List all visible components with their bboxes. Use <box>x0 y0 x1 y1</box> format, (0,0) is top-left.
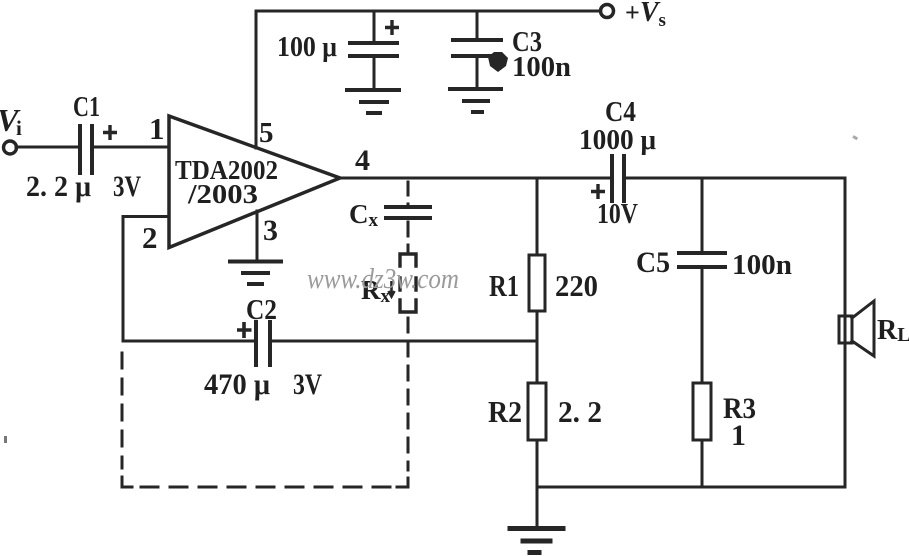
svg-text:100n: 100n <box>512 51 571 83</box>
wire pin3 vertical <box>256 211 259 262</box>
svg-text:3: 3 <box>263 214 278 247</box>
wire C5 to R3 <box>701 267 704 383</box>
capacitor 100u stem bottom <box>373 56 376 90</box>
wire output pin4 <box>340 177 612 180</box>
wire dashed left vertical <box>121 353 124 468</box>
wire pin2 vertical <box>122 217 125 342</box>
label + 100u <box>385 20 399 35</box>
wire dashed lead Cx <box>407 182 410 207</box>
wire C5 branch top <box>701 178 704 253</box>
wire bottom rail <box>537 486 845 489</box>
svg-text:C5: C5 <box>636 246 670 279</box>
svg-text:/2003: /2003 <box>187 179 258 209</box>
svg-text:100n: 100n <box>732 249 792 281</box>
speck artifact top right <box>852 135 858 140</box>
label + C4 <box>591 184 605 199</box>
input terminal Vi <box>4 141 17 154</box>
capacitor 100u plates <box>350 41 397 45</box>
wire dashed Rx down <box>407 318 410 470</box>
wire pin2 horizontal <box>123 215 169 218</box>
terminal +Vs <box>601 5 614 18</box>
wire speaker bottom <box>844 343 847 487</box>
resistor Rx dashed <box>400 254 416 312</box>
capacitor Cx plates <box>386 205 430 209</box>
capacitor C3 stem top <box>476 11 479 40</box>
capacitor C1 plates <box>78 126 82 173</box>
wire input left <box>16 146 80 149</box>
ground main <box>536 487 539 528</box>
svg-text:220: 220 <box>555 268 598 303</box>
speaker RL <box>844 316 847 343</box>
resistor R3 <box>693 383 711 440</box>
label + C2 <box>237 322 252 338</box>
svg-text:3V: 3V <box>293 368 322 401</box>
ground under 100u <box>347 88 399 92</box>
svg-text:2. 2 μ: 2. 2 μ <box>26 170 91 203</box>
wire R2 bottom <box>536 440 539 487</box>
svg-text:R1: R1 <box>489 268 519 303</box>
svg-text:2: 2 <box>142 220 158 255</box>
svg-text:1000 μ: 1000 μ <box>579 124 657 156</box>
svg-text:5: 5 <box>259 117 274 149</box>
wire output to speaker corner <box>624 178 845 316</box>
svg-text:www.dz3w.com: www.dz3w.com <box>307 263 459 295</box>
wire pin5 vertical <box>255 11 258 148</box>
wire input right to pin 1 <box>92 146 169 149</box>
capacitor C2 plates <box>254 322 258 365</box>
wire dashed bottom <box>141 486 392 489</box>
capacitor 100u stem top <box>373 11 376 43</box>
op-amp U1 TDA2002/2003 triangle <box>169 116 340 248</box>
wire feedback left <box>123 340 256 343</box>
capacitor C3 stem bottom <box>476 56 479 89</box>
svg-text:C1: C1 <box>73 91 100 123</box>
svg-text:i: i <box>16 116 22 140</box>
mark arrow Rx <box>389 281 395 297</box>
svg-text:470 μ: 470 μ <box>204 368 270 401</box>
wire top supply rail <box>256 10 599 13</box>
svg-text:1: 1 <box>731 419 746 452</box>
node dot near C3 <box>488 52 508 72</box>
svg-text:C2: C2 <box>246 294 277 326</box>
svg-text:1: 1 <box>149 111 165 146</box>
svg-text:4: 4 <box>355 144 370 177</box>
wire R3 bottom <box>701 440 704 487</box>
ground pin3 <box>230 260 281 264</box>
capacitor C3 plates <box>453 38 501 42</box>
svg-text:3V: 3V <box>113 170 141 203</box>
svg-text:100 μ: 100 μ <box>277 31 337 63</box>
svg-text:2. 2: 2. 2 <box>558 394 602 429</box>
resistor R1 <box>529 255 545 311</box>
wire feedback right <box>270 340 537 343</box>
svg-text:R2: R2 <box>488 394 522 429</box>
svg-text:10V: 10V <box>597 198 638 230</box>
wire dashed Cx to Rx <box>407 222 410 254</box>
wire R1 branch top <box>536 178 539 255</box>
wire R1 to node <box>536 311 539 383</box>
label + C1 <box>103 125 117 140</box>
capacitor C5 plates <box>679 251 725 255</box>
resistor R2 <box>528 383 546 440</box>
capacitor C4 plates <box>610 156 614 201</box>
speck artifact left <box>4 436 7 443</box>
ground under C3 <box>450 87 501 91</box>
